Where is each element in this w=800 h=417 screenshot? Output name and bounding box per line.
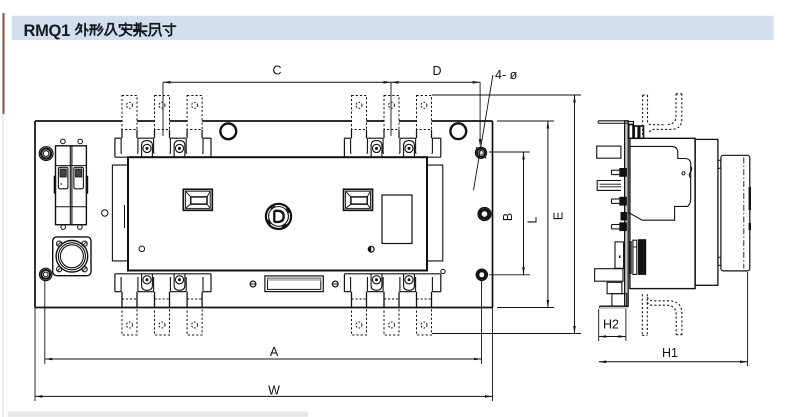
svg-text:A: A xyxy=(270,345,279,359)
svg-text:B: B xyxy=(501,213,515,221)
svg-text:L: L xyxy=(526,216,540,223)
svg-text:W: W xyxy=(268,384,280,398)
svg-text:D: D xyxy=(432,64,441,78)
svg-text:E: E xyxy=(552,212,566,220)
svg-text:RMQ1: RMQ1 xyxy=(24,22,71,40)
svg-text:H2: H2 xyxy=(603,318,619,332)
svg-text:H1: H1 xyxy=(662,346,678,360)
svg-text:4- ø: 4- ø xyxy=(495,68,518,82)
svg-text:C: C xyxy=(272,64,281,78)
